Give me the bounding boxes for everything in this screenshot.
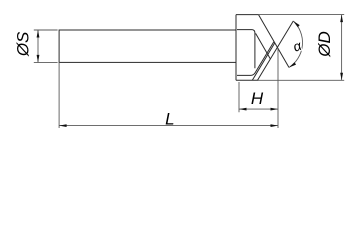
lower flute face diagonal xyxy=(252,43,274,80)
svg-text:ØD: ØD xyxy=(315,31,334,58)
upper flute face diagonal xyxy=(256,33,271,59)
upper flute line with corner and land edge xyxy=(237,30,255,69)
dimension line L xyxy=(59,125,278,127)
svg-text:ØS: ØS xyxy=(14,31,33,57)
extension line top for diameter D xyxy=(259,14,345,16)
cutter head left edge xyxy=(235,15,237,81)
dimension line D xyxy=(341,15,343,80)
extension line right from tip for H and L xyxy=(277,49,279,128)
V-groove cutter technical drawing xyxy=(0,0,360,140)
shank cylinder outline xyxy=(59,30,236,62)
dimension line S xyxy=(37,30,39,62)
svg-text:H: H xyxy=(251,89,264,108)
extension line bottom for diameter D xyxy=(259,79,345,81)
angle dimension arc xyxy=(289,21,303,68)
cutter head bottom edge xyxy=(236,79,259,81)
extension line left for H xyxy=(238,82,240,112)
dimension line H xyxy=(239,108,278,110)
cutter head top edge xyxy=(236,14,259,16)
lower cutting edge through tip extended as angle ray xyxy=(258,21,294,80)
upper cutting edge through tip extended as angle ray xyxy=(259,15,290,68)
svg-text:L: L xyxy=(165,109,174,128)
lower flute line with corner xyxy=(237,42,274,76)
dimension extension lines for shank diameter S xyxy=(34,30,58,62)
extension line left for L below shank edge xyxy=(58,62,60,128)
